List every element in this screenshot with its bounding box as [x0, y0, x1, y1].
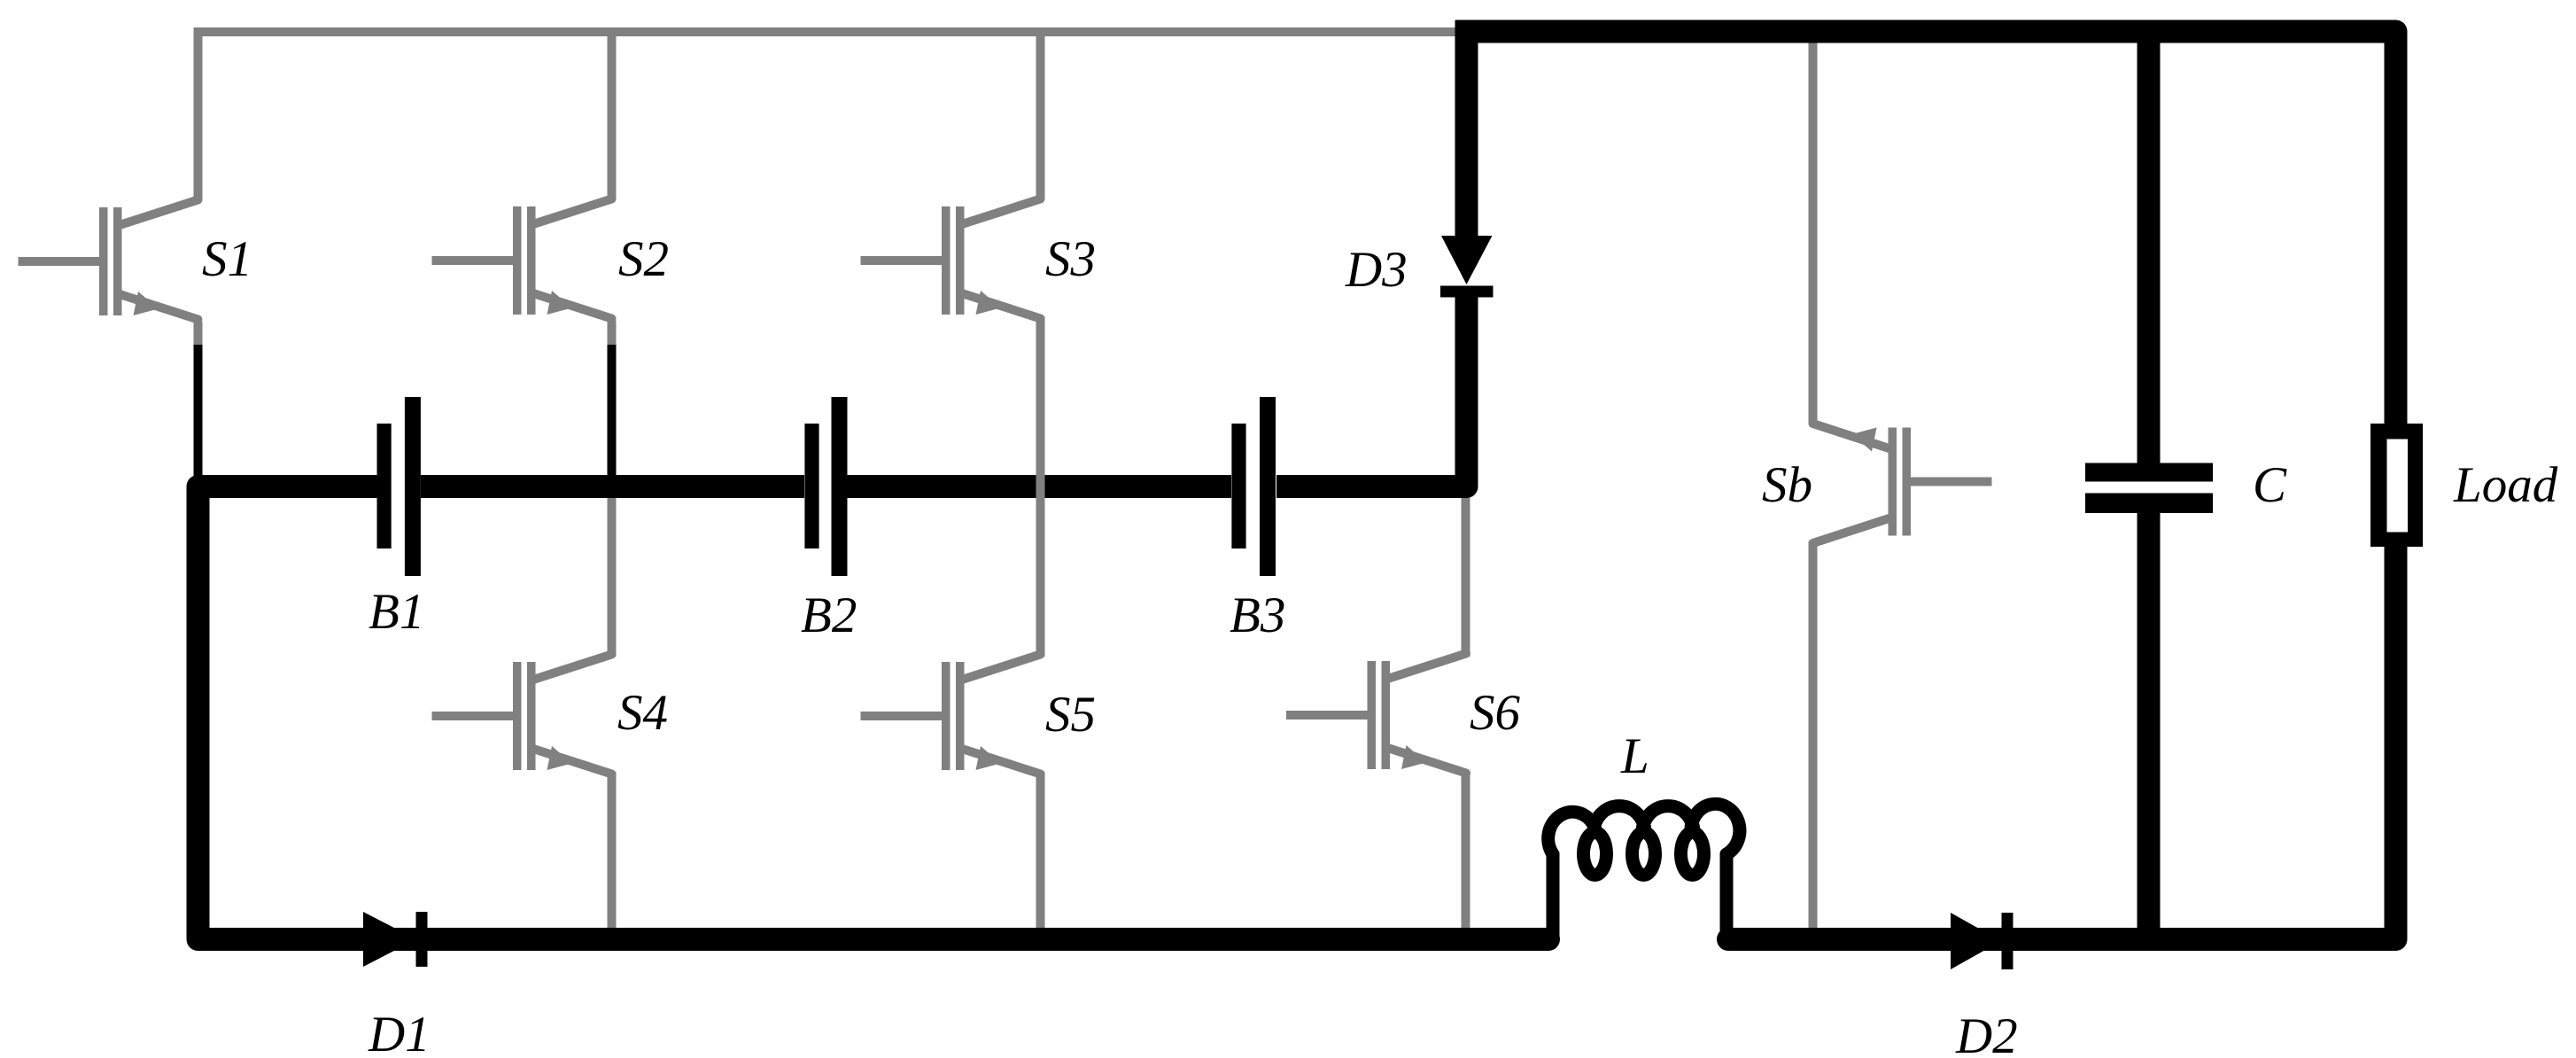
- transistor S4 collector diagonal: [535, 655, 612, 680]
- inductor L right riser: [1720, 854, 1734, 937]
- transistor S4 collector wire: [608, 483, 617, 657]
- transistor S3 emitter arrow: [976, 291, 1001, 315]
- svg-text:D2: D2: [1955, 1008, 2018, 1058]
- transistor S1 gate bar: [99, 207, 108, 315]
- node: S2 emitter to B1+/B2- junction (black stub): [608, 345, 617, 483]
- transistor Sb gate lead: [1909, 478, 1992, 486]
- transistor S3 gate lead: [861, 256, 944, 265]
- transistor S2 collector wire: [608, 27, 617, 200]
- wire: middle rail segment B2 to B1: [421, 475, 804, 498]
- svg-text:S2: S2: [618, 231, 669, 287]
- transistor S3 gate bar: [942, 206, 950, 315]
- transistor S2 gate bar: [513, 206, 522, 315]
- battery B3 negative plate: [1231, 424, 1245, 548]
- transistor S5 emitter wire: [1036, 772, 1045, 932]
- transistor S6 emitter diagonal: [1389, 749, 1466, 774]
- transistor S4 emitter wire: [608, 772, 617, 932]
- transistor S3 collector diagonal: [964, 199, 1041, 224]
- transistor S2 body bar: [527, 206, 536, 315]
- wire: diode D3 branch upper: [1455, 20, 1478, 239]
- svg-text:S3: S3: [1045, 231, 1096, 287]
- transistor S5 emitter diagonal: [964, 750, 1041, 774]
- svg-text:B2: B2: [801, 587, 857, 643]
- transistor S6 emitter wire: [1462, 771, 1470, 932]
- transistor S5 gate bar: [942, 662, 950, 770]
- capacitor C upper lead: [2138, 27, 2161, 464]
- transistor S3 body bar: [956, 206, 965, 315]
- transistor S2 emitter diagonal: [535, 294, 612, 319]
- diode D3 cathode bar: [1440, 286, 1494, 298]
- diode D1 cathode bar: [416, 912, 428, 967]
- wire: middle rail left + left vertical (B1- down): [198, 486, 378, 937]
- battery B2 positive plate: [832, 397, 848, 576]
- transistor S6 emitter arrow: [1401, 745, 1426, 769]
- transistor S5 collector diagonal: [964, 655, 1041, 680]
- svg-text:L: L: [1620, 728, 1649, 784]
- transistor S4 body bar: [527, 662, 536, 770]
- transistor S2 collector diagonal: [535, 199, 612, 224]
- svg-text:S6: S6: [1470, 685, 1521, 741]
- transistor Sb emitter arrow: [1852, 428, 1877, 452]
- wire: top thick rail (D3 node to Load corner): [1455, 32, 2396, 424]
- svg-text:D1: D1: [368, 1007, 431, 1058]
- svg-text:Load: Load: [2453, 457, 2558, 513]
- wire: bottom rail right segment + right vertical (Load branch): [1728, 546, 2396, 939]
- svg-text:S5: S5: [1045, 687, 1096, 743]
- transistor S6 gate bar: [1368, 661, 1377, 769]
- svg-text:S1: S1: [202, 231, 252, 287]
- inductor L left riser: [1547, 854, 1560, 937]
- transistor S6 body bar: [1382, 661, 1391, 769]
- node: S1 emitter to B1- junction (black stub): [194, 345, 203, 483]
- transistor Sb emitter wire (to top rail): [1809, 39, 1818, 424]
- transistor Sb collector diagonal: [1813, 518, 1889, 543]
- battery B3 positive plate: [1260, 397, 1276, 576]
- capacitor C bottom plate: [2085, 494, 2213, 514]
- transistor S2 emitter wire (gray): [608, 321, 617, 347]
- transistor S5 emitter arrow: [976, 746, 1001, 770]
- transistor S5 body bar: [956, 662, 965, 770]
- wire: bottom rail left segment (through D1 to inductor): [198, 928, 1549, 951]
- transistor S2 emitter arrow: [547, 291, 572, 315]
- transistor S5 gate lead: [861, 712, 944, 720]
- transistor S1 collector diagonal: [121, 200, 198, 225]
- transistor S1 gate lead: [19, 257, 102, 266]
- transistor S6 collector wire: [1462, 483, 1470, 657]
- diode D2 triangle: [1951, 913, 2001, 969]
- transistor S4 emitter diagonal: [535, 750, 612, 774]
- wire: middle rail segment B3 to B2: [847, 475, 1231, 498]
- inductor L coil: [1548, 804, 1740, 875]
- transistor S1 collector wire: [194, 27, 203, 201]
- transistor S6 collector diagonal: [1389, 654, 1466, 679]
- battery B2 negative plate: [804, 424, 819, 548]
- transistor S2 gate lead: [432, 256, 516, 265]
- transistor S1 emitter diagonal: [121, 295, 198, 320]
- svg-text:B3: B3: [1230, 587, 1285, 643]
- transistor S4 gate lead: [432, 712, 516, 720]
- diode D1 triangle: [363, 912, 416, 967]
- capacitor C lower lead: [2138, 512, 2161, 937]
- wire: S3 emitter / S5 collector crossing gray wire: [1036, 316, 1045, 657]
- svg-text:S4: S4: [617, 685, 668, 741]
- diode D3 triangle: [1441, 236, 1493, 284]
- svg-text:C: C: [2253, 457, 2287, 513]
- wire: top gray rail: [194, 27, 1457, 36]
- diode D2 cathode bar: [2002, 913, 2013, 969]
- resistor Load box: [2370, 424, 2423, 547]
- svg-text:D3: D3: [1345, 242, 1408, 298]
- wire: diode D3 branch lower + middle rail right segment: [1276, 292, 1467, 486]
- svg-text:Sb: Sb: [1762, 457, 1812, 513]
- transistor S4 emitter arrow: [547, 746, 572, 770]
- transistor Sb body bar: [1889, 428, 1897, 536]
- transistor S1 emitter wire (gray): [194, 322, 203, 347]
- battery B1 positive plate: [405, 397, 421, 576]
- transistor Sb gate bar: [1903, 428, 1912, 536]
- capacitor C top plate: [2085, 463, 2213, 482]
- transistor S3 emitter diagonal: [964, 294, 1041, 319]
- transistor S6 gate lead: [1286, 711, 1369, 720]
- transistor S1 body bar: [113, 207, 122, 315]
- svg-text:B1: B1: [369, 584, 424, 640]
- transistor S4 gate bar: [513, 662, 522, 770]
- battery B1 negative plate: [377, 424, 392, 548]
- transistor S3 collector wire: [1036, 27, 1045, 200]
- transistor S1 emitter arrow: [134, 292, 159, 315]
- transistor Sb emitter diagonal: [1813, 424, 1889, 448]
- transistor Sb collector wire (to bottom rail): [1809, 541, 1818, 932]
